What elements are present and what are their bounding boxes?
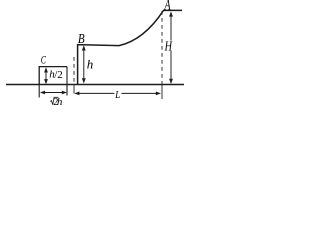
dimension h/2 vertical double arrow xyxy=(44,67,48,84)
svg-text:h: h xyxy=(57,96,63,108)
dashed drop line from A xyxy=(161,11,163,84)
dimension L horizontal double arrow xyxy=(74,92,161,96)
solid extension below floor at cliff base xyxy=(73,84,75,94)
svg-text:L: L xyxy=(114,89,120,101)
dimension H vertical double arrow xyxy=(169,11,173,84)
label H (white backing) xyxy=(164,41,174,51)
label sqrt(2)h xyxy=(50,97,58,104)
cliff edge, plateau B, curved ramp and top line at A xyxy=(78,10,182,84)
svg-text:/2: /2 xyxy=(54,69,63,81)
extension line below floor at left end of sqrt(2)h dimension xyxy=(38,85,40,98)
dimension h vertical double arrow xyxy=(82,45,86,83)
small step block (corner C) xyxy=(39,67,67,85)
svg-text:B: B xyxy=(78,32,85,47)
ground floor line xyxy=(6,84,184,86)
right edge of small step with extension below floor xyxy=(66,67,68,96)
svg-text:A: A xyxy=(164,0,171,14)
dashed extension line at cliff base (left end of L dimension) xyxy=(73,57,75,84)
dimension sqrt(2)h horizontal double arrow xyxy=(40,91,67,95)
svg-text:h: h xyxy=(87,56,94,71)
svg-text:C: C xyxy=(41,52,47,66)
svg-text:H: H xyxy=(164,40,173,55)
solid extension of drop line below floor xyxy=(161,84,163,99)
label L (white backing) xyxy=(114,90,121,99)
